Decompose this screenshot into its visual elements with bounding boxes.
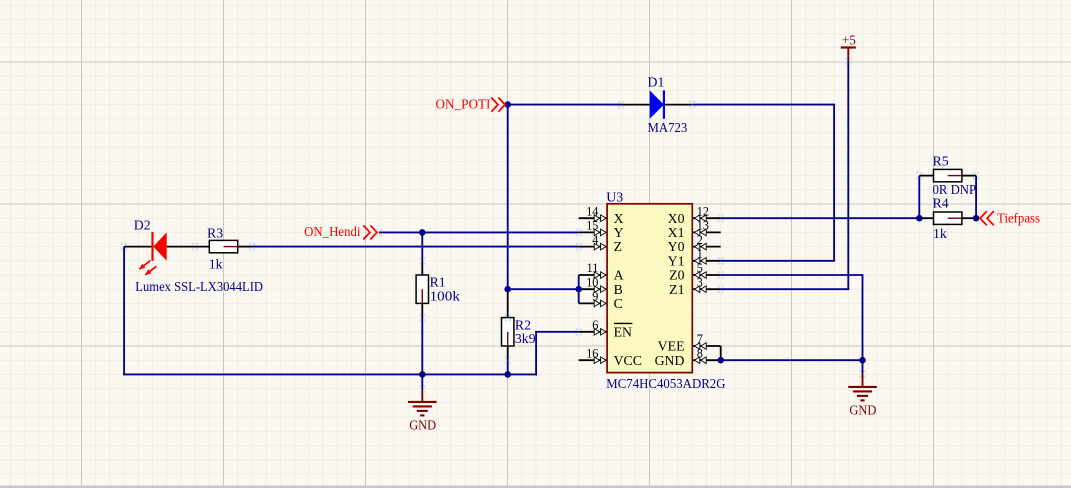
compile mark [576, 243, 578, 245]
LED D2 emission arrows [139, 261, 150, 270]
svg-text:6: 6 [592, 318, 598, 332]
ground GND left [421, 389, 423, 402]
wire +5 to pin Z1 [721, 288, 850, 290]
svg-text:Lumex SSL-LX3044LID: Lumex SSL-LX3044LID [135, 279, 263, 294]
pin 7 bend down to pin 8 row [720, 346, 722, 360]
svg-text:Y1: Y1 [668, 253, 685, 268]
svg-text:ON_Hendi: ON_Hendi [304, 224, 361, 239]
resistor R5 [934, 169, 962, 181]
svg-text:Y0: Y0 [668, 239, 685, 254]
compile mark [419, 314, 421, 316]
svg-text:15: 15 [586, 219, 598, 233]
pin U3-1 stub [692, 260, 720, 262]
wire ON_Hendi junction down to R1 [421, 232, 423, 261]
compile mark [576, 328, 578, 330]
LED D2 [151, 232, 153, 261]
svg-text:C: C [614, 296, 623, 311]
pin U3-11 stub [579, 274, 607, 276]
wire bracket A-B-C [578, 275, 580, 303]
svg-text:16: 16 [586, 346, 598, 360]
svg-text:1k: 1k [209, 256, 223, 271]
junction bracket B [575, 286, 582, 293]
svg-text:13: 13 [697, 219, 709, 233]
pin D2 anode / R3 pin 1 [167, 246, 210, 248]
svg-text:X1: X1 [668, 225, 685, 240]
junction rail / R2 [504, 371, 511, 378]
svg-text:GND: GND [849, 403, 876, 418]
svg-text:8: 8 [697, 346, 703, 360]
pin R5 2 [962, 175, 976, 177]
wire Z0 down to GND [862, 275, 864, 374]
pin R2 1 [507, 289, 509, 318]
wire to pin EN [535, 331, 579, 333]
svg-text:100k: 100k [430, 289, 460, 304]
wire D1 cathode east [693, 104, 836, 106]
diode D1 [650, 90, 664, 118]
compile mark [845, 58, 847, 60]
svg-text:14: 14 [586, 204, 598, 218]
svg-text:2: 2 [697, 233, 703, 247]
svg-text:12: 12 [697, 204, 709, 218]
IC U3 body [607, 204, 692, 373]
wire bottom rail [123, 373, 537, 375]
svg-text:EN: EN [614, 324, 632, 339]
wire rail to GND stem left [421, 374, 423, 389]
junction GND right [859, 357, 866, 364]
compile mark [121, 243, 123, 245]
pin U3-7 stub [692, 345, 720, 347]
compile mark [973, 172, 975, 174]
svg-text:1: 1 [697, 247, 703, 261]
compile mark [718, 285, 720, 287]
svg-text:Z: Z [614, 239, 622, 254]
svg-text:R3: R3 [207, 226, 223, 241]
wire pin X0 to R4 [721, 217, 920, 219]
svg-text:1k: 1k [933, 226, 947, 241]
wire node B to ABC bracket [508, 288, 579, 290]
svg-text:3k9: 3k9 [515, 331, 536, 346]
pin U3-5 stub [692, 274, 720, 276]
pin U3-10 stub [579, 288, 607, 290]
wire rail up to EN row [535, 332, 537, 376]
pin D2 cathode [124, 246, 152, 248]
wire D1 drop to Y1 row [833, 105, 835, 261]
svg-text:A: A [614, 268, 624, 283]
pin U3-14 stub [579, 217, 607, 219]
wire R5 bracket left [918, 176, 920, 219]
wire left loop vertical [123, 247, 125, 375]
junction node B / R2 [504, 286, 511, 293]
pin D1 anode [621, 104, 649, 106]
svg-text:D1: D1 [648, 75, 665, 90]
pin R4 2 [962, 217, 976, 219]
svg-text:VCC: VCC [614, 353, 642, 368]
svg-text:11: 11 [587, 261, 599, 275]
net label Tiefpass [980, 211, 987, 225]
junction pin7/8 [717, 357, 724, 364]
junction rail / GND left [419, 371, 426, 378]
resistor R1 [416, 275, 428, 303]
compile mark [505, 356, 507, 358]
resistor R3 [209, 240, 237, 252]
resistor R4 [934, 212, 962, 224]
resistor R2 [502, 318, 514, 346]
compile mark [576, 229, 578, 231]
svg-text:+5: +5 [842, 33, 856, 48]
compile mark [376, 229, 378, 231]
pin R5 1 [919, 175, 933, 177]
wire pin 8 GND east [721, 359, 863, 361]
wire ON_POTI vertical to node B [507, 104, 509, 290]
compile mark [505, 314, 507, 316]
compile mark [192, 243, 194, 245]
wire ON_POTI to D1 anode [508, 104, 623, 106]
svg-text:MC74HC4053ADR2G: MC74HC4053ADR2G [606, 376, 725, 391]
svg-text:Z0: Z0 [669, 268, 684, 283]
svg-text:U3: U3 [606, 189, 623, 204]
svg-text:B: B [614, 282, 623, 297]
svg-text:MA723: MA723 [648, 120, 688, 135]
pin U3-9 stub [579, 302, 607, 304]
wire R1 bottom to rail [421, 318, 423, 375]
pin U3-13 stub [692, 231, 720, 233]
pin R4 1 [919, 217, 933, 219]
compile mark [859, 370, 861, 372]
wire R5 bracket right [975, 176, 977, 219]
wire pin Z0 east [721, 274, 864, 276]
power +5 [841, 46, 856, 48]
compile mark [618, 101, 620, 103]
svg-text:GND: GND [655, 353, 685, 368]
wire ON_Hendi to pin Y [379, 231, 579, 233]
svg-text:10: 10 [586, 275, 598, 289]
wire R2 bottom to rail [507, 360, 509, 374]
compile mark [249, 243, 251, 245]
junction ON_POTI [504, 101, 511, 108]
pin U3-4 stub [579, 246, 607, 248]
compile mark [718, 271, 720, 273]
svg-text:R1: R1 [430, 274, 446, 289]
svg-text:Tiefpass: Tiefpass [997, 210, 1040, 225]
svg-text:5: 5 [697, 261, 703, 275]
svg-text:GND: GND [409, 418, 436, 433]
pin R1 1 [421, 261, 423, 275]
svg-text:D2: D2 [134, 217, 151, 232]
svg-text:VEE: VEE [658, 339, 685, 354]
svg-text:3: 3 [697, 275, 703, 289]
pin U3-6 stub [579, 331, 607, 333]
compile mark [718, 257, 720, 259]
svg-text:R4: R4 [933, 196, 949, 211]
pin U3-2 stub [692, 246, 720, 248]
pin U3-8 stub [692, 359, 720, 361]
compile mark [419, 385, 421, 387]
pin U3-16 stub [579, 359, 607, 361]
sheet bottom edge [0, 486, 1071, 488]
junction R4 left [916, 215, 923, 222]
svg-text:X0: X0 [668, 211, 685, 226]
pin R3 2 [238, 246, 252, 248]
svg-text:Y: Y [614, 225, 624, 240]
svg-text:9: 9 [592, 290, 598, 304]
compile mark [718, 214, 720, 216]
pin U3-3 stub [692, 288, 720, 290]
pin R1 2 [421, 303, 423, 317]
pin U3-15 stub [579, 231, 607, 233]
wire to pin Y1 [721, 260, 835, 262]
wire R3 to pin Z [252, 246, 579, 248]
ground GND right [862, 374, 864, 387]
pin D1 cathode [664, 104, 692, 106]
pin U3-12 stub [692, 217, 720, 219]
pin R2 2 [507, 346, 509, 360]
svg-text:Z1: Z1 [669, 282, 684, 297]
compile mark [419, 257, 421, 259]
svg-text:R5: R5 [933, 154, 949, 169]
svg-text:ON_POTI: ON_POTI [436, 97, 491, 112]
svg-text:X: X [614, 211, 624, 226]
svg-text:4: 4 [592, 233, 598, 247]
junction R4 right [973, 215, 980, 222]
compile mark [689, 101, 691, 103]
svg-text:7: 7 [697, 332, 703, 346]
wire +5 vertical [847, 61, 849, 289]
compile mark [916, 172, 918, 174]
junction ON_Hendi / R1 [419, 229, 426, 236]
